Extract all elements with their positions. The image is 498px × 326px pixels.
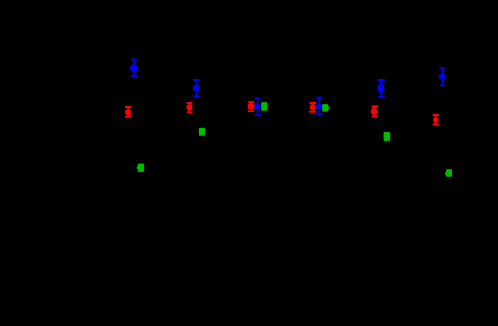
atom O (right molecule, amide oxygen) (371, 105, 378, 117)
counterion N (left cluster nitrogen) (254, 98, 261, 117)
atom N+ (left molecule, pyridinium nitrogen) (130, 59, 138, 78)
counterion N (right cluster nitrogen) (316, 97, 323, 115)
atom N+ (right molecule, pyridinium nitrogen) (439, 67, 446, 86)
atom N-H (left molecule, amide nitrogen) (193, 79, 200, 97)
atom N-H (right molecule, amide nitrogen) (378, 79, 385, 98)
counterion Cl (left cluster chlorine) (261, 102, 267, 111)
atom O (right molecule, ketone oxygen) (433, 114, 439, 126)
atom Cl (left molecule, ring chlorine 1) (199, 128, 205, 136)
counterion Cl (right cluster chlorine) (322, 104, 329, 112)
atom Cl (left molecule, ring chlorine 2) (137, 164, 144, 172)
atom O (left molecule, amide oxygen) (186, 102, 192, 113)
counterion O (right cluster oxygen) (309, 102, 316, 113)
counterion O (left cluster oxygen) (248, 101, 255, 112)
atom Cl (right molecule, ring chlorine 1) (384, 132, 391, 141)
atom O (left molecule, ketone oxygen) (125, 106, 131, 118)
atom Cl (right molecule, ring chlorine 2) (445, 169, 452, 177)
